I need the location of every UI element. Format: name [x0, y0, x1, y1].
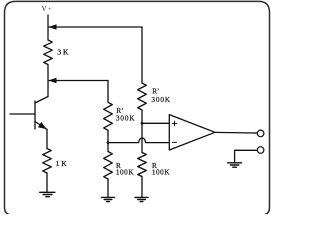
wire minus input with hop over right column	[108, 138, 169, 143]
svg-text:300K: 300K	[151, 96, 171, 104]
transistor Q1 base wire	[10, 113, 35, 115]
terminal circle output	[257, 130, 264, 137]
wire right column vertical down to R' top	[141, 27, 143, 83]
resistor R 100K right	[138, 153, 147, 177]
junction dot left column	[107, 141, 110, 144]
transistor Q1 emitter arrowhead	[38, 122, 47, 129]
resistor R' 300K left	[104, 102, 113, 130]
wire lower terminal to ground	[235, 150, 258, 163]
svg-text:100K: 100K	[152, 169, 170, 177]
ground G1	[40, 192, 55, 196]
wire left column vertical down to R' top	[107, 81, 109, 102]
transistor Q1 collector	[35, 97, 48, 104]
ground G3	[135, 197, 148, 201]
wire R 100K left to ground	[107, 179, 109, 197]
wire op-amp output	[215, 131, 257, 134]
terminal circle ground	[257, 147, 264, 154]
op-amp minus sign	[172, 141, 176, 143]
svg-text:R’: R’	[152, 87, 159, 95]
transistor Q1 base bar	[34, 101, 36, 129]
wire plus input	[142, 122, 169, 124]
arrowhead pointing left at V+ node	[48, 24, 56, 30]
arrowhead pointing left at collector node	[48, 78, 56, 84]
resistor R' 300K right	[138, 83, 147, 110]
wire R' right down through + node to hop	[141, 110, 143, 153]
svg-text:300K: 300K	[116, 115, 136, 123]
wire 1K bottom to ground	[46, 173, 48, 192]
junction dot right column	[141, 122, 144, 125]
svg-text:V +: V +	[42, 5, 53, 13]
wire V+ vertical down to 3K top	[47, 15, 49, 40]
ground G2	[101, 197, 114, 201]
wire top horizontal from V+ node to right column	[49, 26, 143, 28]
wire between R' and R left column	[107, 130, 109, 151]
svg-text:100K: 100K	[116, 169, 134, 177]
resistor R 3K	[44, 40, 53, 65]
svg-text:3 K: 3 K	[57, 47, 69, 56]
resistor R 100K left	[104, 152, 113, 180]
wire 3K bottom down to collector bend	[47, 65, 49, 97]
wire R 100K right to ground	[141, 177, 143, 198]
wire collector-node horizontal to left column	[49, 80, 109, 82]
op-amp U1 triangle	[169, 115, 215, 150]
resistor R 1K	[43, 149, 52, 174]
border frame	[5, 1, 270, 215]
svg-text:1 K: 1 K	[56, 159, 68, 168]
op-amp plus sign	[172, 121, 176, 125]
transistor Q1 emitter	[35, 122, 47, 130]
wire emitter down to 1K	[46, 129, 48, 148]
ground G4	[228, 163, 242, 167]
